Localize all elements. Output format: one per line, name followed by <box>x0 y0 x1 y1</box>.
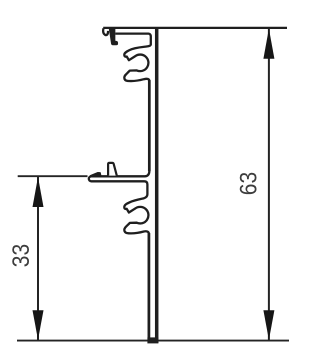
wall right line <box>155 29 159 343</box>
shelf ramp (small wedge on middle arm) <box>91 173 101 176</box>
wall left line reinforcement (mid segment) <box>148 80 151 171</box>
left extension line (33) <box>18 175 88 177</box>
dimension line 63 <box>268 29 270 341</box>
top flange underside + upper wall left line + top clip (screw port) <box>89 34 151 343</box>
arrow 33 bottom <box>33 310 44 340</box>
top extension line / profile top flange top surface <box>103 27 287 29</box>
dimension line 33 <box>37 177 39 340</box>
bottom extension line <box>17 340 289 342</box>
svg-text:33: 33 <box>8 244 35 267</box>
shelf tooth (middle arm spike) <box>108 163 117 176</box>
arrow 33 top <box>33 177 44 207</box>
profile left lip (top-left hook) <box>103 28 108 35</box>
wall bottom closed tip <box>147 337 158 343</box>
profile stem tooth under top flange <box>110 29 118 45</box>
wall left line reinforcement (lower segment) <box>148 233 151 343</box>
svg-text:63: 63 <box>235 172 262 195</box>
arrow 63 top <box>263 29 274 59</box>
arrow 63 bottom <box>263 310 274 340</box>
